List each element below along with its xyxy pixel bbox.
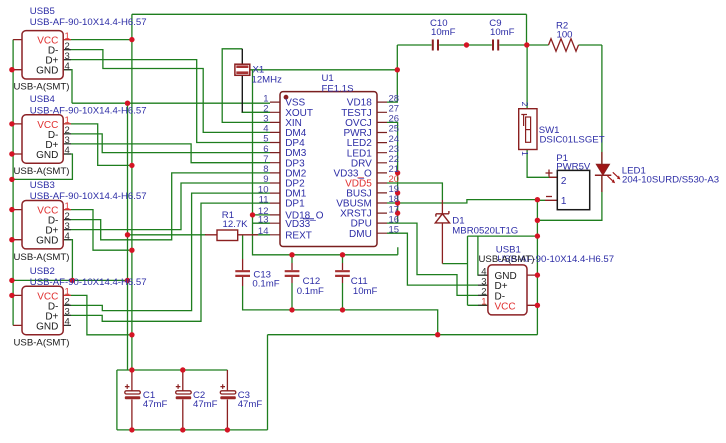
wire left shield bus — [12, 40, 14, 326]
svg-text:FE1.1S: FE1.1S — [322, 83, 354, 94]
wire LED leads — [601, 152, 603, 192]
junction pin18 VBUSM — [395, 200, 400, 205]
svg-text:USB3: USB3 — [30, 180, 55, 191]
svg-text:USB5: USB5 — [30, 6, 55, 17]
U1 right pin numbers — [389, 93, 400, 235]
connector USB2 box — [22, 286, 63, 334]
junction USB2 VCC to VCC bus — [129, 332, 134, 337]
wire C13 top link — [242, 235, 244, 259]
wire GND5-VSS line — [72, 102, 270, 104]
svg-text:USB-AF-90-10X14.4-H6.57: USB-AF-90-10X14.4-H6.57 — [30, 17, 147, 28]
junction USB3 GND loop on shield bus — [9, 278, 14, 283]
wire C1 leads — [131, 371, 133, 430]
junction USB1 VCC stub — [535, 303, 540, 308]
wire bottom rail — [117, 429, 268, 431]
USB1 pin numbers — [481, 266, 486, 307]
wire C3 leads — [226, 370, 228, 430]
USB4 pin names — [36, 120, 58, 161]
wire USB2 D- staircase — [63, 193, 270, 311]
svg-text:PWR5V: PWR5V — [556, 161, 591, 172]
svg-text:GND: GND — [36, 236, 58, 247]
wire USB1 pin stubs — [478, 275, 488, 305]
svg-text:1: 1 — [520, 151, 530, 156]
switch SW1 — [519, 109, 537, 150]
svg-text:0.1mF: 0.1mF — [252, 278, 279, 289]
connector P1 box — [557, 170, 589, 209]
svg-text:10mF: 10mF — [490, 27, 515, 38]
LED LED1 — [595, 164, 621, 183]
svg-text:USB-A(SMT): USB-A(SMT) — [479, 254, 535, 265]
wire P1 pin stubs — [545, 177, 557, 200]
wire USB5 VCC — [63, 39, 132, 41]
junction crystal line to VD18 — [395, 67, 400, 72]
junction pin19 BUSJ — [395, 190, 400, 195]
wire ground interlink y335 — [268, 334, 538, 336]
junction P1 minus / VBUSM — [535, 197, 540, 202]
connector USB4 box — [22, 115, 63, 163]
wire DMU staircase to USB1 D+ — [387, 233, 488, 285]
wire USB4 pin stubs — [63, 134, 71, 154]
svg-text:USB4: USB4 — [30, 94, 56, 105]
wire C2 leads — [182, 370, 184, 430]
svg-text:47mF: 47mF — [193, 399, 218, 410]
op-amp U1 box FE1.1S — [280, 92, 377, 247]
svg-text:11: 11 — [259, 194, 269, 205]
USB connector pin stubs (black) — [63, 50, 488, 326]
wire USB3 D+ staircase — [63, 183, 270, 230]
wire USB5 pin stubs — [63, 50, 71, 70]
wire USB4 D- staircase — [63, 134, 270, 153]
svg-text:47mF: 47mF — [143, 399, 168, 410]
connector USB1 box — [488, 265, 527, 315]
junction GND5 wire to GND bus — [125, 101, 130, 106]
wire D1 cathode lead — [441, 200, 443, 214]
wire DPU staircase to USB1 D- — [387, 223, 488, 295]
svg-text:DP1: DP1 — [285, 199, 305, 210]
wire USB2 D+ staircase — [63, 203, 270, 321]
svg-text:USB-AF-90-10X14.4-H6.57: USB-AF-90-10X14.4-H6.57 — [30, 191, 147, 202]
U1 left pin names — [285, 98, 324, 242]
wire VDD5 to D1 — [387, 183, 442, 200]
wire USB3 pin stubs — [63, 220, 71, 240]
wire R1 leads — [205, 234, 258, 236]
wire crystal right line — [250, 69, 397, 71]
wire top VCC horizontal — [132, 13, 527, 15]
USB2 pin names — [36, 291, 58, 332]
wire VD33 pin13 — [253, 222, 271, 224]
wire USB4 D+ staircase — [63, 144, 270, 163]
USB VCC pin stubs (red) — [63, 40, 71, 296]
wire USB3 D- staircase — [63, 173, 270, 240]
wire USB left-side pin stubs — [13, 40, 22, 326]
svg-text:4: 4 — [65, 61, 70, 72]
junction USB4 GND left stub on shield bus — [9, 151, 14, 156]
wire R1 REXT line — [128, 234, 271, 236]
wire cap row segments — [397, 44, 602, 46]
svg-text:1: 1 — [561, 196, 567, 207]
junction USB4 VCC left stub on shield bus — [9, 121, 14, 126]
svg-text:0.1mF: 0.1mF — [297, 286, 324, 297]
wire USB1 GND left riser — [478, 236, 488, 275]
wire U1 left pin stubs 1-14 — [270, 102, 280, 235]
wire USB1 right stubs — [527, 275, 537, 305]
wire XOUT — [242, 111, 271, 113]
svg-text:15: 15 — [389, 224, 400, 235]
wire LED return — [537, 176, 602, 221]
svg-text:4: 4 — [65, 145, 70, 156]
junction USB5 GND left stub on shield bus — [9, 67, 14, 72]
svg-text:USB2: USB2 — [30, 266, 55, 277]
U1 pin1 indicator dot — [284, 95, 289, 100]
svg-text:USB-A(SMT): USB-A(SMT) — [14, 252, 70, 263]
wire USB2 pin stubs — [63, 305, 71, 325]
wire top right drop to cap row — [526, 14, 528, 45]
U1 pin stubs — [270, 102, 387, 235]
junction USB3 VCC left stub on shield bus — [9, 207, 14, 212]
black footprint labels — [14, 82, 535, 349]
svg-text:12MHz: 12MHz — [252, 74, 283, 85]
svg-text:14: 14 — [258, 226, 269, 237]
junction pin17 XRSTJ — [395, 210, 400, 215]
wire USB4 GND loop — [12, 154, 73, 179]
svg-text:10mF: 10mF — [353, 286, 378, 297]
junction USB3 GND drop — [70, 278, 75, 283]
wire USB5 D- staircase — [63, 50, 270, 133]
P1 minus sign — [546, 196, 552, 198]
wire VCC bus vertical — [131, 14, 133, 370]
wire R2 to LED drop — [601, 45, 603, 164]
svg-text:USB-A(SMT): USB-A(SMT) — [14, 166, 70, 177]
junction USB3 GND left stub on shield bus — [9, 237, 14, 242]
wire USB3 GND loop — [12, 240, 128, 281]
wire P1 minus vertical chain — [537, 200, 545, 335]
junction C12 top on VD33 line — [289, 252, 294, 257]
wire USB4 VCC staircase — [63, 124, 132, 165]
wire USB3 VCC staircase — [63, 210, 132, 251]
svg-text:10mF: 10mF — [431, 27, 456, 38]
wire GND bus vertical — [127, 103, 129, 370]
svg-text:204-10SURD/S530-A3: 204-10SURD/S530-A3 — [622, 175, 719, 186]
svg-text:4: 4 — [65, 317, 70, 328]
wire VD18_O pin12 — [253, 214, 271, 216]
junction C11 bottom on rail — [340, 307, 345, 312]
junction USB4 VCC to VCC bus — [129, 163, 134, 168]
svg-text:VCC: VCC — [495, 301, 516, 312]
svg-text:4: 4 — [65, 231, 70, 242]
svg-text:DMU: DMU — [349, 229, 372, 240]
resistor R1 — [217, 230, 238, 241]
junction C9-R2-SW1 node — [524, 42, 529, 47]
capacitor C11 plates — [335, 271, 350, 276]
svg-text:USB-AF-90-10X14.4-H6.57: USB-AF-90-10X14.4-H6.57 — [30, 105, 147, 116]
junction VD18_O pin12 — [250, 212, 255, 217]
connector USB5 box — [22, 31, 63, 79]
crystal black leads — [241, 49, 243, 113]
wire C11 plate leads — [342, 263, 344, 283]
junction rail drop on ground link — [435, 332, 440, 337]
svg-text:2: 2 — [561, 176, 567, 187]
U1 left pin numbers — [258, 93, 269, 237]
USB5 pin names — [36, 36, 58, 77]
wire VD18 branch — [387, 45, 397, 102]
svg-text:USB-A(SMT): USB-A(SMT) — [14, 82, 70, 93]
junction GND3 loop to GND bus — [125, 278, 130, 283]
wire D1 anode route — [442, 236, 537, 305]
capacitor C9 — [493, 40, 498, 51]
wire cap top rail — [117, 369, 227, 371]
svg-text:47mF: 47mF — [238, 399, 263, 410]
wire VBUSM to P1 — [387, 200, 537, 203]
USB2 pin numbers — [65, 287, 70, 328]
VDD5 overline tick — [358, 177, 365, 179]
svg-text:GND: GND — [36, 66, 58, 77]
USB5 pin numbers — [65, 31, 70, 72]
svg-text:100: 100 — [557, 30, 573, 41]
svg-text:VD33: VD33 — [285, 219, 310, 230]
wire USB5 D+ staircase — [63, 60, 270, 143]
P1 plus sign — [546, 170, 553, 177]
junction C2 top on cap rail — [180, 367, 185, 372]
wire D1 anode lead — [441, 223, 443, 264]
wire C13 bottom rail2 — [243, 286, 438, 335]
wire C12 plate leads — [291, 263, 293, 283]
capacitor C13 plates — [235, 271, 250, 276]
svg-text:12.7K: 12.7K — [223, 219, 249, 230]
svg-text:GND: GND — [36, 150, 58, 161]
svg-text:USB-AF-90-10X14.4-H6.57: USB-AF-90-10X14.4-H6.57 — [30, 277, 147, 288]
crystal X1 — [235, 64, 250, 75]
capacitor C10 — [433, 40, 438, 51]
svg-text:USB-A(SMT): USB-A(SMT) — [14, 338, 70, 349]
VD33 overline — [303, 218, 314, 220]
wire XIN route — [222, 49, 270, 123]
junction pin21 VD33_O — [395, 170, 400, 175]
junction C1 bottom on ground rail — [129, 427, 134, 432]
svg-text:REXT: REXT — [285, 230, 312, 241]
svg-text:1: 1 — [481, 297, 486, 308]
junction C12 bottom on rail — [289, 307, 294, 312]
junction VCC bus to cap rail / C1 top — [129, 367, 134, 372]
wire SW1 top — [526, 45, 528, 110]
junction USB2 VCC left stub on shield bus — [9, 293, 14, 298]
wire vertical crystal to y255 line — [253, 70, 398, 255]
junction D1 anode line — [535, 233, 540, 238]
wire C13 leads — [242, 259, 244, 286]
svg-text:2: 2 — [520, 102, 530, 107]
junction C2 bottom on ground rail — [180, 427, 185, 432]
junction C11 top on VD33 line — [340, 252, 345, 257]
svg-text:13: 13 — [258, 214, 269, 225]
SW1 rotated pin numbers — [520, 102, 530, 157]
USB4 pin numbers — [65, 115, 70, 156]
junction R1 line to GND bus — [125, 232, 130, 237]
U1 right pin names — [333, 98, 372, 240]
wire USB2 VCC staircase — [63, 295, 132, 334]
junction LED return — [535, 218, 540, 223]
wire riser x267 — [267, 335, 269, 430]
P1 pin numbers — [561, 176, 567, 207]
wire pin26 vertical — [387, 122, 398, 223]
capacitor C3 (polarized) — [220, 384, 236, 399]
junction C3 bottom on ground rail — [225, 427, 230, 432]
wire USB5 GND drop — [63, 70, 72, 104]
USB1 pin names — [495, 271, 517, 312]
USB3 pin numbers — [65, 201, 70, 242]
wire C11 leads — [342, 255, 344, 310]
connector USB3 box — [22, 201, 63, 249]
wire U1 right pin stubs 15-28 — [377, 102, 387, 233]
svg-text:MBR0520LT1G: MBR0520LT1G — [452, 225, 518, 236]
wire SW1 bottom to P1 plus — [527, 149, 557, 177]
wire X1 bottom lead — [241, 75, 243, 112]
junction C10-C9 node — [464, 42, 469, 47]
wire C12 leads — [291, 255, 293, 310]
wire X1 top lead — [241, 49, 243, 64]
junction USB3 VCC to VCC bus — [129, 248, 134, 253]
resistor R2 zigzag — [549, 39, 579, 52]
diode D1 (schottky) — [435, 211, 449, 223]
component leads (dark red) — [13, 40, 602, 430]
capacitor C12 plates — [285, 271, 300, 276]
USB3 pin names — [36, 206, 58, 247]
junction USB5 VCC to VCC bus — [129, 37, 134, 42]
svg-text:GND: GND — [36, 321, 58, 332]
wire rail left riser — [116, 370, 118, 430]
capacitor C2 (polarized) — [176, 384, 192, 399]
junction USB4 GND loop on shield bus — [9, 177, 14, 182]
svg-text:DSIC01LSGET: DSIC01LSGET — [540, 135, 605, 146]
junction USB1 GND stub — [535, 272, 540, 277]
capacitor C1 (polarized) — [125, 384, 141, 399]
